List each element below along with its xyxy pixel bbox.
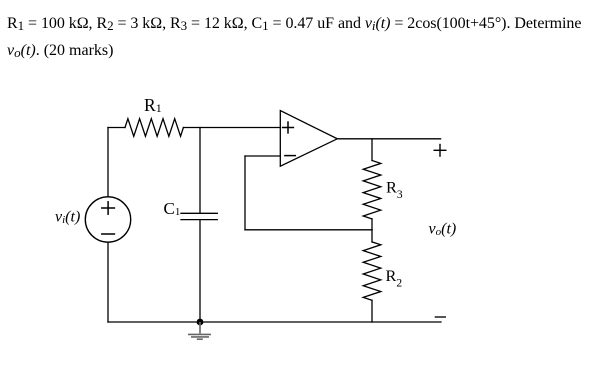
wire R3 to feedback node — [371, 219, 373, 230]
wire bottom rail — [108, 321, 441, 323]
svg-text:C1: C1 — [164, 199, 181, 218]
wire R2 to bottom rail — [371, 300, 373, 322]
wire capacitor branch lower — [199, 220, 201, 322]
wire feedback horizontal to R3-R2 node — [245, 229, 372, 231]
op-amp U1 — [280, 111, 337, 167]
wire feedback node to R2 — [371, 230, 373, 242]
problem statement line 2 — [7, 43, 113, 59]
wire op-amp output — [337, 138, 440, 140]
resistor R3 — [363, 161, 381, 219]
wire R1 to op-amp + input — [183, 127, 280, 129]
op-amp minus input marker — [285, 155, 295, 157]
source plus sign — [102, 202, 115, 214]
svg-text:R1: R1 — [144, 95, 162, 115]
resistor R2 — [363, 242, 381, 300]
capacitor C1 top plate — [181, 212, 217, 214]
output terminal minus sign — [435, 316, 446, 318]
op-amp plus input marker — [283, 122, 294, 133]
wire inverting input stub — [245, 155, 280, 157]
output terminal plus sign — [434, 145, 446, 157]
svg-text:R3: R3 — [386, 178, 403, 201]
source minus sign — [102, 233, 115, 235]
capacitor C1 bottom plate — [181, 219, 217, 221]
wire capacitor branch upper — [199, 128, 201, 214]
ground — [188, 322, 211, 339]
resistor R1 — [125, 119, 183, 137]
voltage source vi(t) — [85, 197, 130, 242]
wire output node to R3 — [371, 139, 373, 161]
wire top-left horizontal (source top to R1) — [108, 127, 125, 129]
problem statement line 1 — [7, 16, 581, 32]
junction dot (ground node) — [197, 319, 204, 326]
wire feedback vertical — [244, 156, 246, 230]
wire left rail upper (source top) — [107, 128, 109, 197]
svg-text:vi(t): vi(t) — [55, 209, 80, 227]
svg-text:vo(t): vo(t) — [429, 221, 457, 239]
svg-text:R2: R2 — [386, 266, 403, 289]
wire left rail lower (source bottom) — [107, 242, 109, 322]
